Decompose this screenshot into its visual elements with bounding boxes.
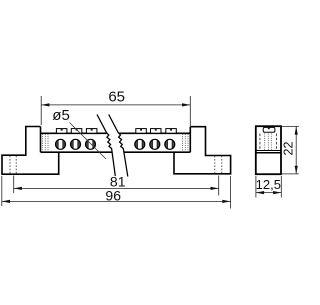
svg-text:96: 96 — [105, 187, 121, 203]
svg-text:ø5: ø5 — [52, 107, 70, 124]
svg-text:65: 65 — [108, 88, 125, 105]
svg-text:22: 22 — [281, 142, 295, 156]
svg-text:12,5: 12,5 — [256, 177, 281, 192]
